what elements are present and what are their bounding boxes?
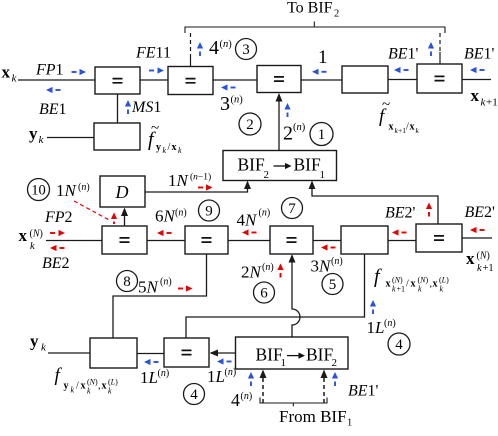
wire E2 to E3	[213, 79, 257, 81]
label xk+1N	[466, 249, 494, 274]
svg-text:x: x	[386, 279, 391, 290]
wire E4 to xk1	[462, 79, 491, 81]
svg-text:+1: +1	[397, 285, 406, 294]
svg-text:,: ,	[98, 381, 101, 392]
wire fy2 to E9	[137, 353, 164, 355]
label 4N(n)	[237, 208, 271, 230]
svg-text:7: 7	[288, 201, 296, 217]
svg-text:y: y	[30, 332, 39, 351]
svg-text:From BIF: From BIF	[279, 407, 347, 426]
svg-text:k: k	[440, 285, 444, 294]
wire dashed from bracket to node E2	[190, 33, 192, 66]
svg-text:10: 10	[31, 183, 46, 199]
label 3N(n)	[311, 256, 343, 276]
wire xkN to E5	[46, 240, 102, 242]
label 5N(n)	[138, 277, 172, 297]
svg-text:1L: 1L	[140, 368, 158, 387]
arrow blue up 1Ln	[370, 300, 376, 314]
svg-text:BE1': BE1'	[388, 46, 419, 63]
label From BIF1	[279, 407, 352, 429]
svg-text:1: 1	[318, 127, 326, 143]
arrow blue up 2n	[284, 103, 290, 117]
svg-text:8: 8	[123, 274, 131, 290]
svg-text:(N): (N)	[30, 229, 43, 240]
label f1 tilde	[379, 97, 420, 135]
arrow blue left msg1	[312, 69, 327, 75]
arrow red up BE2'	[426, 203, 432, 217]
wire E8 to xk1N	[462, 237, 492, 239]
arrow red left 4Nn	[242, 229, 257, 235]
svg-text:x: x	[433, 279, 438, 290]
wire E6 down to fy2	[113, 254, 207, 338]
svg-text:(n): (n)	[225, 367, 237, 378]
svg-text:6N: 6N	[155, 207, 177, 226]
label 6N(n)	[155, 207, 187, 226]
label 1L(n) a	[140, 368, 169, 387]
label xk	[2, 63, 18, 85]
arrow blue left 1Lnb	[217, 358, 232, 364]
label f2	[374, 266, 449, 294]
svg-text:1L: 1L	[207, 367, 225, 386]
svg-text:k: k	[87, 387, 91, 396]
svg-text:+1: +1	[483, 263, 494, 274]
svg-text:4: 4	[395, 337, 403, 353]
wire BIF12 up to E7 with hop	[289, 254, 301, 337]
equality node E1	[95, 67, 140, 94]
svg-text:y: y	[64, 381, 69, 392]
svg-text:y: y	[156, 142, 161, 153]
svg-text:(n): (n)	[331, 256, 343, 267]
box BIF2 to BIF1	[223, 151, 337, 182]
svg-text:(n): (n)	[175, 208, 187, 219]
svg-text:2: 2	[264, 169, 270, 181]
label 2N(n)	[241, 262, 274, 282]
svg-text:3: 3	[242, 42, 250, 58]
svg-text:FP1: FP1	[35, 62, 64, 79]
svg-text:FE11: FE11	[135, 45, 171, 62]
equality node E6	[185, 226, 228, 254]
svg-text:x: x	[172, 142, 177, 153]
equality node E8	[416, 224, 462, 252]
svg-text:x: x	[102, 381, 107, 392]
svg-text:1L: 1L	[367, 318, 385, 337]
svg-text:3N: 3N	[311, 257, 333, 276]
arrow black dashed up from-BIF1 right	[321, 370, 328, 404]
svg-text:(n): (n)	[241, 391, 253, 402]
wire BIF12 to E9 with arrow	[210, 350, 237, 357]
label fy2	[55, 365, 119, 396]
svg-text:2: 2	[246, 117, 254, 133]
arrow blue right FE11	[149, 67, 164, 73]
arrow black dashed up from-BIF1 left	[260, 370, 267, 404]
svg-text:+1: +1	[398, 126, 406, 135]
svg-text:D: D	[115, 182, 129, 202]
svg-text:k: k	[163, 146, 167, 155]
svg-text:x: x	[81, 381, 86, 392]
svg-text:2N: 2N	[241, 263, 263, 282]
svg-text:3: 3	[220, 93, 230, 115]
arrow red right 1Nn1	[198, 184, 213, 190]
label yk	[29, 124, 45, 146]
arrow blue up BE1' right	[428, 42, 434, 56]
wire dashed from bracket to node E4	[439, 33, 441, 64]
svg-text:(n): (n)	[231, 95, 244, 106]
svg-text:BIF: BIF	[294, 155, 322, 175]
svg-text:k: k	[178, 146, 182, 155]
arrow blue left BE1'a	[394, 67, 409, 73]
svg-text:+1: +1	[486, 97, 498, 109]
svg-text:(n−1): (n−1)	[190, 172, 211, 183]
svg-text:4: 4	[190, 387, 198, 403]
label xkN	[19, 226, 43, 252]
svg-text:y: y	[29, 124, 38, 143]
svg-text:BE2': BE2'	[385, 205, 416, 222]
svg-text:x: x	[471, 86, 480, 105]
factor f1 box	[342, 66, 388, 93]
svg-text:2: 2	[332, 357, 338, 369]
pointer red dashed to D arrow	[74, 201, 117, 224]
arrow red right FP2	[50, 230, 65, 236]
svg-text:(n): (n)	[262, 262, 274, 273]
wire E5 to E6	[147, 240, 185, 242]
svg-text:1N: 1N	[56, 181, 78, 200]
svg-text:(N): (N)	[477, 251, 490, 262]
svg-text:BE1: BE1	[39, 101, 67, 118]
equality node E9	[164, 338, 209, 367]
svg-text:BIF: BIF	[238, 155, 266, 175]
wire E7 to f2	[313, 240, 341, 242]
svg-text:k: k	[392, 285, 396, 294]
box BIF1 to BIF2	[236, 337, 349, 369]
node number 3	[236, 39, 257, 60]
svg-text:(N): (N)	[87, 378, 98, 387]
svg-text:(n): (n)	[293, 122, 306, 133]
wire f2 down to E9	[186, 254, 365, 338]
svg-text:1: 1	[318, 47, 328, 68]
svg-text:6: 6	[260, 286, 268, 302]
label fy tilde	[148, 121, 182, 156]
arrow red left BE2'b	[470, 227, 485, 233]
arrow blue up 4n bottom	[248, 372, 254, 386]
node number 9	[199, 200, 220, 221]
label 3(n)	[220, 93, 243, 115]
svg-text:BE2: BE2	[42, 255, 70, 272]
arrow blue left 3n	[221, 84, 236, 90]
svg-text:x: x	[2, 63, 11, 82]
arrow blue left BE1	[46, 87, 61, 93]
factor fy2 box	[90, 338, 137, 368]
arrow red up 2Nn	[277, 264, 283, 278]
label 2(n)	[283, 122, 306, 145]
svg-text:(N): (N)	[392, 276, 403, 285]
svg-text:1N: 1N	[168, 171, 190, 190]
svg-text:4: 4	[231, 390, 240, 410]
svg-text:(L): (L)	[108, 378, 118, 387]
svg-text:BE2': BE2'	[465, 204, 496, 221]
svg-text:MS1: MS1	[131, 99, 161, 116]
label 1N(n-1)	[168, 171, 211, 190]
arrow red right 5Nn	[178, 285, 193, 291]
svg-text:x: x	[466, 249, 475, 268]
svg-text:(n): (n)	[259, 208, 271, 219]
factor fy box	[94, 123, 140, 150]
svg-text:(n): (n)	[78, 182, 90, 193]
label BE1' top left	[388, 46, 419, 63]
arrow blue up BE1' bottom	[332, 372, 338, 386]
bracket to-BIF2	[185, 22, 445, 34]
arrow blue right FP1	[72, 69, 87, 75]
svg-text:(n): (n)	[220, 39, 233, 50]
svg-text:4: 4	[209, 37, 219, 59]
arrow red left BE2'a	[392, 229, 407, 235]
svg-text:2: 2	[334, 9, 339, 20]
svg-text:1: 1	[347, 418, 352, 429]
svg-text:/: /	[168, 142, 171, 153]
wire D to BIF21 with arrow	[145, 181, 251, 193]
node number 1	[310, 123, 333, 146]
svg-text:x: x	[19, 226, 28, 245]
svg-text:BIF: BIF	[306, 345, 334, 365]
node number 8	[117, 271, 138, 292]
svg-text:2: 2	[283, 123, 293, 145]
svg-text:k: k	[71, 386, 75, 395]
svg-text:(n): (n)	[160, 277, 172, 288]
wire xk to E1	[18, 79, 95, 81]
node number 5	[322, 274, 343, 295]
node number 10	[28, 179, 50, 201]
node number 4 left	[184, 384, 205, 405]
svg-text:k: k	[30, 241, 35, 252]
svg-text:x: x	[410, 122, 415, 133]
svg-text:BIF: BIF	[256, 345, 284, 365]
label 1N(n)	[56, 181, 90, 200]
svg-text:x: x	[389, 122, 394, 133]
svg-text:5N: 5N	[138, 278, 160, 297]
svg-text:/: /	[406, 279, 409, 290]
svg-text:FP2: FP2	[44, 209, 73, 226]
equality node E4	[417, 64, 462, 93]
node number 2	[239, 113, 261, 135]
svg-text:k: k	[418, 285, 422, 294]
label 4(n) bottom	[231, 390, 252, 410]
svg-text:(n): (n)	[158, 368, 170, 379]
svg-text:~: ~	[382, 97, 390, 113]
label xk+1	[471, 86, 498, 109]
wire yk to fy2	[48, 352, 90, 354]
svg-text:/: /	[76, 381, 79, 392]
wire f2 to E8	[388, 240, 416, 242]
svg-text:1: 1	[320, 169, 326, 181]
node number 7	[282, 198, 303, 219]
svg-text:4N: 4N	[237, 211, 259, 230]
svg-text:To BIF: To BIF	[287, 0, 333, 17]
wire f1 to E4	[388, 79, 417, 81]
wire BIF21 to E8 path	[309, 181, 439, 225]
label 1L(n) right	[367, 318, 396, 337]
arrow blue up msg 4n	[197, 42, 203, 56]
wire E1 to E2	[140, 79, 168, 81]
wire yk to fy	[47, 137, 94, 139]
arrow red left 6Nn	[157, 230, 172, 236]
svg-text:k: k	[108, 387, 112, 396]
svg-text:1: 1	[281, 357, 287, 369]
bracket from-BIF1	[260, 398, 327, 407]
arrow blue up MS1	[125, 100, 131, 114]
box D	[100, 176, 145, 207]
label BE1' top right	[464, 46, 495, 63]
arrow red left 3Nn	[321, 244, 336, 250]
label 1L(n) b	[207, 367, 236, 386]
label To BIF2	[287, 0, 339, 20]
arrow blue left BE1'b	[470, 67, 485, 73]
factor f2 box	[341, 226, 388, 254]
equality node E7	[270, 226, 313, 254]
svg-text:~: ~	[151, 121, 159, 137]
svg-text:(N): (N)	[418, 276, 429, 285]
equality node E3	[257, 66, 301, 93]
node number 4 right	[388, 333, 410, 355]
svg-text:9: 9	[205, 204, 213, 220]
svg-text:5: 5	[329, 277, 337, 293]
equality node E2	[168, 67, 213, 95]
equality node E5	[102, 226, 147, 254]
node number 6	[254, 282, 275, 303]
svg-text:BE1': BE1'	[348, 383, 379, 400]
svg-text:x: x	[411, 279, 416, 290]
svg-text:(L): (L)	[439, 276, 449, 285]
wire E1 to fy	[117, 94, 119, 123]
arrow red left BE2	[50, 245, 65, 251]
wire E6 to E7	[228, 240, 270, 242]
label yk bottom	[30, 332, 47, 354]
label 4(n) top	[209, 37, 232, 59]
svg-text:BE1': BE1'	[464, 46, 495, 63]
wire E3 down to BIF21 with arrow	[276, 93, 283, 150]
svg-text:k: k	[477, 263, 482, 274]
svg-text:(n): (n)	[384, 318, 396, 329]
wire E5 up to D with arrow	[121, 208, 128, 227]
arrow blue left 1Lna	[144, 359, 159, 365]
wire E3 to factor f1	[301, 79, 342, 81]
